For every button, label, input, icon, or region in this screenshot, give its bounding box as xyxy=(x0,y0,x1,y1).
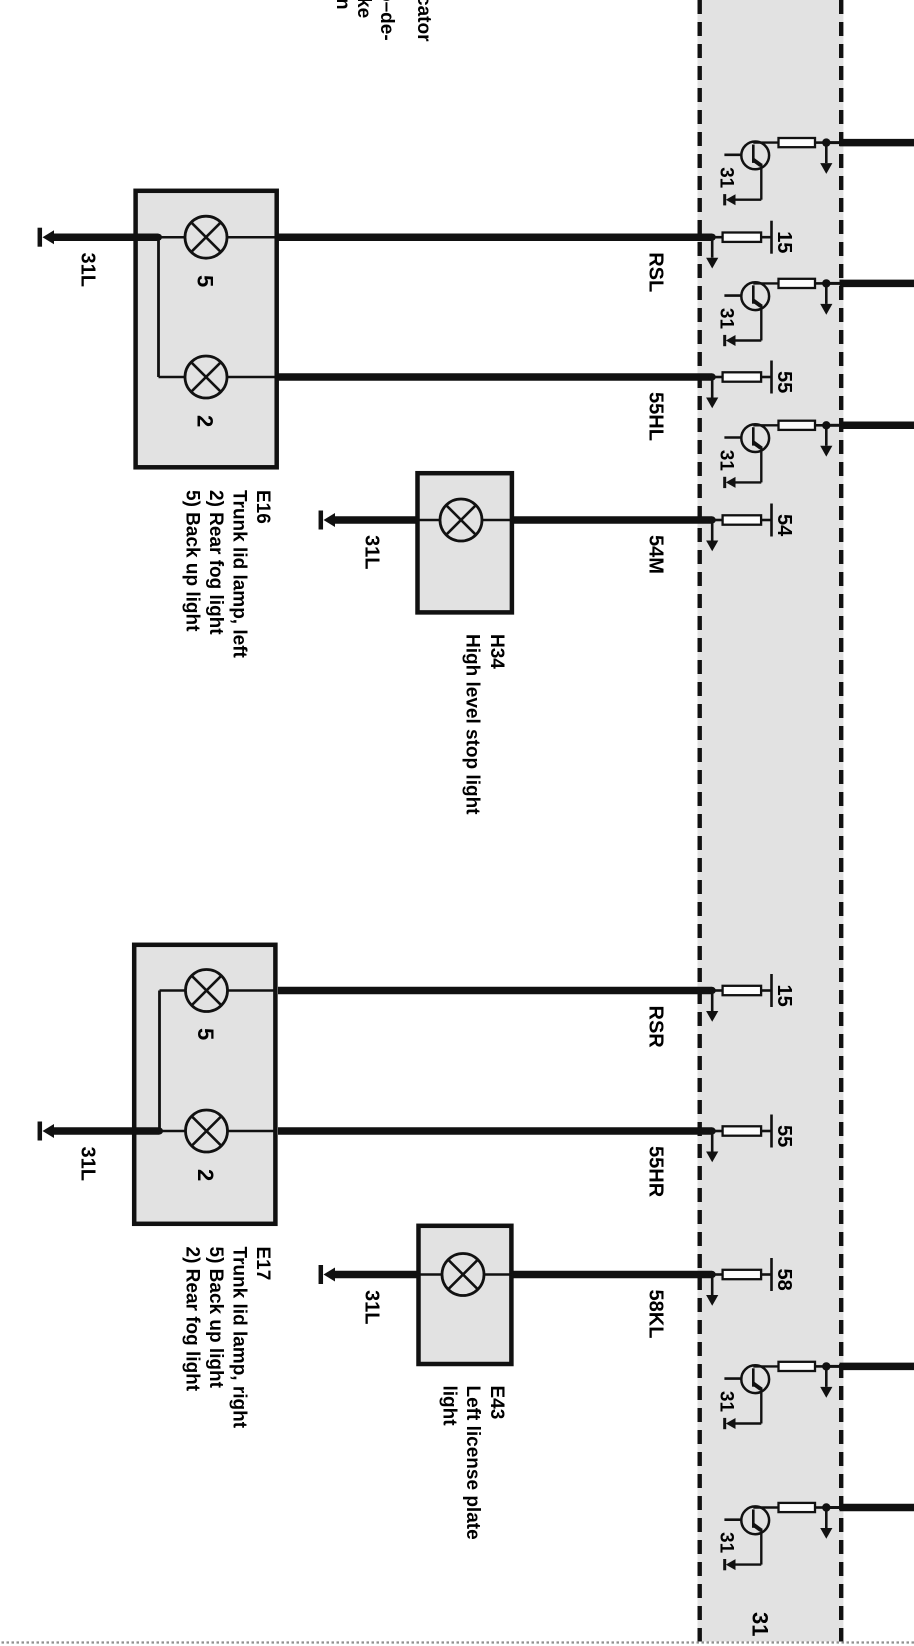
node junction 54M xyxy=(709,516,716,523)
svg-text:2) Rear fog light: 2) Rear fog light xyxy=(205,490,226,635)
resistor/fuse element terminal 54 xyxy=(723,515,762,524)
wire link to junction Q2 xyxy=(826,282,839,285)
wire terminal link 58 xyxy=(761,1273,771,1276)
svg-text:2) Rear fog light: 2) Rear fog light xyxy=(182,1247,203,1392)
svg-text:31L: 31L xyxy=(77,1147,99,1181)
wire fuse link 55HL xyxy=(712,376,722,379)
svg-text:54: 54 xyxy=(773,514,795,537)
lamp assembly E16 box xyxy=(136,191,277,468)
svg-text:31L: 31L xyxy=(361,535,383,569)
arrow indicator at node 54M xyxy=(711,520,714,541)
svg-text:5) Back up light: 5) Back up light xyxy=(205,1247,226,1389)
wire lead E43 top xyxy=(484,1273,512,1276)
node junction Q3 xyxy=(822,421,830,429)
svg-text:5: 5 xyxy=(193,1028,218,1040)
wire output Q1 to top edge xyxy=(840,139,914,147)
lamp E17 pin 2 xyxy=(186,1110,228,1152)
svg-text:High level stop light: High level stop light xyxy=(462,634,483,815)
svg-text:55HL: 55HL xyxy=(645,392,667,441)
wire terminal link 15 xyxy=(761,236,771,239)
wire emitter Q3 xyxy=(760,446,762,482)
transistor Q5 xyxy=(741,1506,769,1534)
transistor Q4 xyxy=(741,1365,769,1393)
svg-text:Trunk lid lamp, right: Trunk lid lamp, right xyxy=(229,1247,250,1429)
arrow indicator at node 58KL xyxy=(711,1275,714,1296)
ground 31 arrow Q4 xyxy=(726,1418,736,1429)
wire terminal link 15 xyxy=(761,989,771,992)
resistor/fuse element terminal 15 xyxy=(723,986,762,995)
wire terminal link 55 xyxy=(761,1130,771,1133)
dashed border bottom of unit xyxy=(698,0,702,1642)
wire lead lamp E17-5 bottom xyxy=(160,989,186,992)
wire 55HR from unit to lamp xyxy=(278,1127,712,1135)
wire fuse link 55HR xyxy=(712,1130,722,1133)
svg-text:31: 31 xyxy=(716,167,737,189)
svg-text:54M: 54M xyxy=(645,535,667,574)
wire fuse link Q1 xyxy=(815,141,827,144)
ground symbol 31L E43 xyxy=(324,1268,336,1282)
terminal bar 55 xyxy=(770,361,773,394)
transistor Q1 xyxy=(741,142,769,170)
svg-text:2: 2 xyxy=(193,415,218,427)
node junction 31L in E16 xyxy=(155,234,162,241)
svg-text:55: 55 xyxy=(773,371,795,393)
terminal bar 15 xyxy=(770,974,773,1007)
resistor/fuse element terminal 55 xyxy=(723,1126,762,1135)
resistor/fuse element F1 xyxy=(779,138,816,147)
node junction Q2 xyxy=(822,279,830,287)
arrow indicator at node 55HR xyxy=(711,1131,714,1152)
ground symbol 31L E16 xyxy=(43,230,55,244)
lamp E16 pin 2 xyxy=(185,356,227,398)
svg-text:H34: H34 xyxy=(486,634,507,669)
node junction 58KL xyxy=(709,1271,716,1278)
wire emitter Q5 xyxy=(760,1529,762,1565)
transistor Q3 xyxy=(741,424,769,452)
wire emitter Q2 xyxy=(760,304,762,340)
wire lead H34 bottom xyxy=(417,519,440,522)
ground 31 arrow Q1 xyxy=(726,194,736,205)
wire lead lamp E16-5 top xyxy=(227,236,277,239)
wire collector Q4 xyxy=(753,1365,778,1367)
resistor/fuse element F5 xyxy=(779,1503,816,1512)
resistor/fuse element terminal 58 xyxy=(723,1270,762,1279)
wire collector Q5 xyxy=(753,1506,778,1508)
wire 58KL from unit to lamp xyxy=(514,1271,713,1279)
wire output Q5 to top edge xyxy=(840,1504,914,1512)
wire terminal link 54 xyxy=(761,519,771,522)
wire output Q2 to top edge xyxy=(840,280,914,288)
svg-text:E17: E17 xyxy=(252,1247,273,1281)
wire lead lamp E17-2 top xyxy=(228,1130,278,1133)
resistor/fuse element F3 xyxy=(779,421,816,430)
ground 31 arrow Q3 xyxy=(726,477,736,488)
svg-text:5) Back up light: 5) Back up light xyxy=(182,490,203,632)
svg-text:31: 31 xyxy=(716,1391,737,1413)
wire lead H34 top xyxy=(482,519,512,522)
wire link to junction Q3 xyxy=(826,424,839,427)
wire lead E43 bottom xyxy=(418,1273,442,1276)
svg-text:31: 31 xyxy=(748,1612,773,1636)
svg-text:31: 31 xyxy=(716,1532,737,1554)
svg-text:E16: E16 xyxy=(252,490,273,524)
svg-text:5: 5 xyxy=(193,275,218,287)
svg-text:31L: 31L xyxy=(77,253,99,287)
svg-text:Left license plate: Left license plate xyxy=(462,1386,483,1540)
svg-text:light: light xyxy=(439,1386,460,1427)
terminal bar 54 xyxy=(770,504,773,537)
wire RSR from unit to lamp xyxy=(278,987,712,995)
wire fuse link RSR xyxy=(712,989,722,992)
arrow indicator at node Q4 xyxy=(825,1366,828,1387)
svg-text:Trunk lid lamp, left: Trunk lid lamp, left xyxy=(229,490,250,659)
wire bridge inside E17 xyxy=(158,991,161,1132)
wire ground 31L of E16 xyxy=(53,233,159,241)
lamp E16 pin 5 xyxy=(185,216,227,258)
svg-text:RSL: RSL xyxy=(645,252,667,292)
node junction 31L in E17 xyxy=(156,1128,163,1135)
wire output Q3 to top edge xyxy=(840,422,914,430)
svg-text:55: 55 xyxy=(773,1125,795,1147)
wire output Q4 to top edge xyxy=(840,1363,914,1371)
ground 31 arrow Q5 xyxy=(726,1559,736,1570)
node junction Q5 xyxy=(822,1503,830,1511)
svg-text:58: 58 xyxy=(773,1269,795,1291)
wire link to junction Q4 xyxy=(826,1365,839,1368)
wire lead lamp E16-5 bottom xyxy=(159,236,186,239)
wire collector Q1 xyxy=(753,141,778,143)
arrow indicator at node Q3 xyxy=(825,425,828,446)
terminal bar 55 xyxy=(770,1115,773,1148)
wire terminal link 55 xyxy=(761,376,771,379)
wire link to junction Q1 xyxy=(826,141,839,144)
wire 54M from unit to lamp xyxy=(514,516,712,524)
svg-text:n: n xyxy=(332,0,353,10)
page border right (dotted) xyxy=(0,1641,914,1643)
wire fuse link Q4 xyxy=(815,1365,827,1368)
svg-text:o–de-: o–de- xyxy=(376,0,397,41)
svg-text:15: 15 xyxy=(773,985,795,1007)
svg-text:2: 2 xyxy=(193,1169,218,1181)
svg-text:31L: 31L xyxy=(361,1290,383,1324)
svg-text:31: 31 xyxy=(716,308,737,330)
svg-text:RSR: RSR xyxy=(645,1006,667,1049)
node junction Q4 xyxy=(822,1362,830,1370)
ECU/rear electrical distribution unit: gray band xyxy=(698,0,844,1642)
svg-text:15: 15 xyxy=(773,231,795,253)
node junction Q1 xyxy=(822,138,830,146)
wire lead lamp E17-5 top xyxy=(228,989,278,992)
wire fuse link 54M xyxy=(712,519,722,522)
svg-text:cator: cator xyxy=(413,0,434,42)
ground symbol 31L H34 xyxy=(324,513,336,527)
ground 31 arrow Q2 xyxy=(726,335,736,346)
wire ground 31L of E43 xyxy=(334,1271,419,1279)
resistor/fuse element F2 xyxy=(779,279,816,288)
node junction RSR xyxy=(709,987,716,994)
wire fuse link 58KL xyxy=(712,1273,722,1276)
transistor Q2 xyxy=(741,282,769,310)
arrow indicator at node RSR xyxy=(711,991,714,1012)
resistor/fuse element terminal 55 xyxy=(723,372,762,381)
lamp H34 box xyxy=(418,473,512,612)
arrow indicator at node Q2 xyxy=(825,283,828,304)
wire 55HL from unit to lamp xyxy=(278,373,712,381)
arrow indicator at node RSL xyxy=(711,237,714,258)
svg-text:55HR: 55HR xyxy=(645,1146,667,1198)
arrow indicator at node 55HL xyxy=(711,377,714,398)
node junction RSL xyxy=(709,234,716,241)
ground symbol 31L E17 xyxy=(43,1124,55,1138)
wire lead lamp E16-2 top xyxy=(227,376,277,379)
arrow indicator at node Q5 xyxy=(825,1508,828,1529)
svg-text:ke: ke xyxy=(353,0,374,18)
wire emitter Q4 xyxy=(760,1387,762,1423)
resistor/fuse element terminal 15 xyxy=(723,233,762,242)
wire collector Q2 xyxy=(753,282,778,284)
node junction 55HL xyxy=(709,373,716,380)
resistor/fuse element F4 xyxy=(779,1362,816,1371)
lamp assembly E17 box xyxy=(134,945,275,1224)
terminal bar 15 xyxy=(770,221,773,254)
wire ground 31L of H34 xyxy=(334,516,418,524)
wire RSL from unit to lamp xyxy=(278,233,712,241)
dashed border top of unit xyxy=(839,0,843,1642)
wire bridge inside E16 xyxy=(157,237,160,377)
wire emitter Q1 xyxy=(760,164,762,200)
svg-text:31: 31 xyxy=(716,450,737,472)
arrow indicator at node Q1 xyxy=(825,143,828,164)
lamp H34 xyxy=(440,499,482,541)
wire fuse link Q5 xyxy=(815,1506,827,1509)
lamp E43 box xyxy=(419,1226,512,1364)
node junction 55HR xyxy=(709,1127,716,1134)
wire collector Q3 xyxy=(753,424,778,426)
wire link to junction Q5 xyxy=(826,1506,839,1509)
lamp E17 pin 5 xyxy=(186,970,228,1012)
wire fuse link Q3 xyxy=(815,424,827,427)
wire fuse link Q2 xyxy=(815,282,827,285)
wire ground 31L of E17 xyxy=(53,1127,160,1135)
terminal bar 58 xyxy=(770,1258,773,1291)
lamp E43 xyxy=(442,1254,484,1296)
wire fuse link RSL xyxy=(712,236,722,239)
svg-text:58KL: 58KL xyxy=(645,1290,667,1339)
svg-text:E43: E43 xyxy=(486,1386,507,1420)
